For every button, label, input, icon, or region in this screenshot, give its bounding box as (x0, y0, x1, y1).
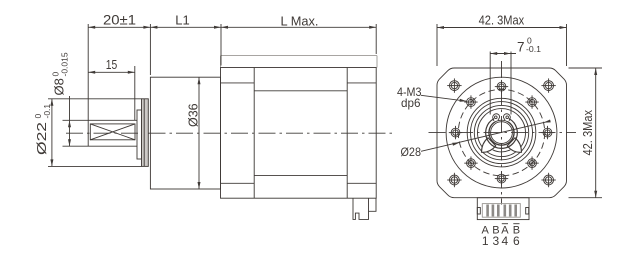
shaft circle outer (489, 120, 514, 145)
M3 mounting hole (NE) (528, 98, 537, 107)
circlip lobe left (482, 138, 496, 152)
motor max-length phantom outline (gray) (221, 56, 378, 68)
extension line motor front face (220, 24, 222, 66)
dimension 42.3Max top (437, 27, 567, 29)
gearbox face ring 2 (471, 102, 533, 164)
svg-text:Ø8: Ø8 (52, 78, 67, 95)
dimension 15 (88, 71, 135, 73)
motor corner post lines bottom (221, 182, 255, 184)
svg-text:6: 6 (513, 234, 520, 248)
dimension 7 0/-0.1 (490, 53, 516, 55)
svg-text:L1: L1 (175, 12, 189, 27)
circlip lobe right (507, 138, 521, 152)
dimension L1 (150, 26, 157, 29)
shaft hub plate (137, 110, 142, 159)
svg-text:42. 3Max: 42. 3Max (479, 13, 525, 28)
svg-text:7: 7 (517, 40, 525, 55)
flange corner hole (bottom-left) (450, 175, 460, 185)
svg-text:-0.015: -0.015 (60, 52, 70, 76)
connector step (side view) (369, 198, 377, 211)
circlip ear right (503, 114, 510, 121)
shaft circle Ø8 (491, 122, 513, 144)
circlip seat arc between lobes (493, 150, 511, 152)
motor corner post lines top (221, 82, 255, 84)
svg-text:L Max.: L Max. (281, 13, 319, 28)
svg-text:-0.1: -0.1 (42, 104, 52, 119)
flange corner hole (bottom-right) (544, 175, 554, 185)
housing screw hole (top) (497, 82, 506, 91)
gearbox face ring 1 (467, 98, 536, 167)
M3 mounting hole (SW) (467, 159, 476, 168)
retaining ring (circlip) body (486, 119, 518, 149)
svg-text:-0.1: -0.1 (526, 44, 541, 54)
circlip ear left (493, 114, 500, 121)
dimension 20±1 (88, 26, 150, 28)
svg-text:15: 15 (106, 58, 118, 72)
motor flange square outline 42.3 (437, 68, 567, 198)
extension lines 7 dim (circlip ears) (489, 52, 491, 115)
M3 mounting hole (NW) (467, 98, 476, 107)
shaft flat section with cross (15 mm) (90, 124, 135, 140)
housing screw hole (right) (543, 128, 552, 137)
extension lines 42.3Max top (436, 24, 438, 66)
gearbox outline circle Ø36 (front) (446, 77, 557, 188)
front view horizontal centerline (429, 132, 577, 134)
gearbox face ring 4 (478, 109, 526, 157)
wire: side-view horizontal centerline (66, 132, 396, 134)
motor end cap verticals (253, 68, 255, 199)
svg-text:4: 4 (502, 234, 509, 248)
connector keying tab right (526, 208, 529, 215)
bolt circle Ø28 (dashed) (458, 89, 544, 175)
connector (side view) with notch (353, 198, 369, 219)
dimension Ø22 0/-0.1 (48, 98, 142, 100)
gearbox housing (L1 section, Ø36) (150, 77, 220, 189)
svg-text:42. 3Max: 42. 3Max (581, 109, 595, 155)
motor stack lines (254, 90, 347, 92)
extension line flat end (15) (134, 66, 136, 120)
front view vertical centerline (501, 61, 503, 205)
connector housing (front view) (477, 198, 529, 220)
M3 mounting hole (SE) (528, 159, 537, 168)
connector socket area (482, 204, 520, 218)
svg-text:dp6: dp6 (401, 96, 421, 110)
extension line motor rear face (375, 24, 377, 54)
svg-text:20±1: 20±1 (103, 12, 136, 27)
dimension Ø8 0/-0.015 (69, 96, 71, 146)
svg-text:1: 1 (482, 234, 489, 248)
gearbox face ring 3 (474, 105, 528, 159)
motor body outline (221, 68, 377, 199)
connector keying tab left (477, 208, 480, 215)
svg-text:Ø36: Ø36 (187, 103, 201, 127)
dimension L Max. (221, 26, 376, 28)
svg-text:3: 3 (493, 234, 500, 248)
dimension 42.3Max right (595, 68, 597, 198)
flange corner hole (top-left) (450, 81, 460, 91)
housing screw hole (left) (451, 128, 460, 137)
flange corner hole (top-right) (544, 81, 554, 91)
svg-text:Ø22: Ø22 (34, 122, 49, 155)
svg-text:Ø28: Ø28 (401, 145, 422, 159)
dimension Ø36 (198, 77, 200, 189)
extension lines 42.3Max right (569, 67, 603, 69)
front boss plate (Ø22) (142, 99, 149, 167)
connector pins (486, 205, 489, 217)
shaft (side view, Ø8) (63, 119, 138, 121)
housing screw hole (bottom) (497, 174, 506, 183)
extension line gearbox face (149, 24, 151, 75)
